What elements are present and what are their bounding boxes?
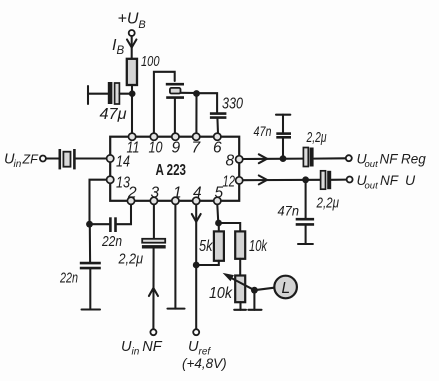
svg-text:2,2μ: 2,2μ — [118, 251, 143, 268]
wire node to 10k branch — [219, 223, 241, 232]
svg-text:U: U — [405, 172, 416, 188]
wire wiper to ground — [253, 290, 255, 310]
svg-text:2,2μ: 2,2μ — [316, 196, 339, 212]
capacitor 2.2u row1 box plate — [303, 148, 308, 167]
wire node down to 47n lower — [305, 180, 307, 218]
node 22n junction — [86, 221, 93, 228]
node 47n row2 junction — [302, 176, 309, 183]
wire cap row1 to terminal — [314, 157, 346, 159]
wire node to 5k — [218, 223, 220, 232]
svg-text:7: 7 — [192, 140, 202, 157]
capacitor 2.2u row2 solid plate — [327, 171, 331, 189]
wire pin 13 left and down — [90, 180, 107, 225]
wire 330 to pin 6 — [216, 118, 219, 134]
svg-text:in: in — [14, 159, 22, 170]
svg-text:47μ: 47μ — [100, 106, 127, 123]
svg-text:1: 1 — [173, 185, 182, 202]
capacitor Uin ZF right plate — [73, 149, 76, 169]
svg-text:A 223: A 223 — [156, 162, 187, 179]
svg-text:out: out — [365, 159, 379, 170]
svg-text:9: 9 — [172, 140, 181, 157]
arrow into pin 4 line — [192, 214, 201, 222]
svg-text:330: 330 — [222, 96, 243, 113]
pin 7 — [193, 133, 200, 140]
capacitor 2.2u row1 solid plate — [310, 148, 314, 167]
potentiometer 10k body — [235, 276, 245, 303]
wire node to cap 330 — [197, 93, 218, 112]
wire 22n vertical to ground — [89, 268, 91, 309]
capacitor pin10 top plate — [166, 83, 184, 86]
pin 10 — [150, 133, 157, 140]
wire pot bottom to ground — [239, 302, 241, 310]
svg-text:UinNF: UinNF — [121, 339, 163, 358]
capacitor 47n lower top plate — [296, 218, 314, 221]
node pin5/5k/10k junction — [215, 220, 222, 227]
wire terminal to input cap — [46, 157, 59, 159]
terminal Uin NF — [150, 329, 156, 335]
capacitor 22n (pin13-pin2) right plate — [114, 217, 117, 232]
capacitor 22n vertical top plate — [80, 262, 101, 265]
terminal Uout NF Reg — [346, 155, 352, 161]
svg-text:5: 5 — [215, 185, 224, 202]
wire pin 5 down — [217, 205, 218, 224]
svg-text:14: 14 — [116, 154, 130, 171]
svg-text:12: 12 — [223, 174, 236, 191]
ground stub pin 1 — [168, 308, 185, 310]
capacitor 47n upper top plate — [276, 132, 291, 135]
wire 47n lower to ground — [305, 224, 307, 244]
pin 14 — [107, 155, 114, 162]
node Uref/5k junction — [193, 262, 200, 269]
pin 1 — [172, 197, 179, 204]
resistor 5k — [214, 231, 224, 260]
pin 8 — [236, 156, 243, 163]
capacitor 47u negative plate — [108, 82, 113, 104]
wire 47u to node — [120, 93, 133, 95]
pin 3 — [150, 197, 157, 204]
capacitor 22n (pin13-pin2) left plate — [109, 217, 112, 232]
wire R100 to pin 11 — [131, 85, 133, 134]
capacitor 2.2u row2 box plate — [321, 171, 326, 189]
svg-text:out: out — [365, 180, 379, 191]
wire pin 12 to output row 2 — [243, 179, 320, 181]
terminal Uref — [193, 329, 199, 335]
wire box electrode to pin7 node — [181, 92, 197, 94]
svg-text:10k: 10k — [249, 238, 268, 255]
node R100/47u junction — [129, 90, 136, 97]
ground stub wiper — [248, 309, 261, 311]
svg-text:6: 6 — [213, 140, 222, 157]
wire 2.2u down to Uin NF terminal — [152, 249, 154, 330]
capacitor pin9 bottom plate — [166, 96, 184, 99]
ground stub above 47n — [276, 114, 290, 116]
pin 2 — [127, 197, 134, 204]
wire 47n up to ground — [282, 115, 284, 134]
wiper arrow of pot — [232, 278, 254, 290]
capacitor Uin ZF left plate — [58, 149, 61, 169]
svg-text:2: 2 — [127, 185, 137, 202]
wire node down to 22n vertical — [89, 224, 91, 262]
capacitor 2.2u (pin3) solid plate — [142, 245, 166, 248]
lamp L — [274, 276, 297, 299]
ground stub pot — [234, 309, 246, 311]
wire pin 8 to output row 1 — [243, 158, 303, 160]
wiper arrowhead — [223, 273, 234, 281]
wire stub to 47u — [88, 93, 108, 95]
pin 6 — [214, 133, 221, 140]
wire pin 3 down — [153, 205, 155, 239]
arrow row 2 — [259, 176, 267, 185]
pin 5 — [214, 197, 221, 204]
ground stub left of 47u — [87, 86, 89, 104]
pin 4 — [193, 197, 200, 204]
svg-text:22n: 22n — [101, 234, 122, 250]
terminal Uin ZF — [40, 156, 46, 162]
wire pin 4 down to Uref — [195, 205, 197, 330]
ground stub below 47n lower — [298, 243, 313, 245]
pin 9 — [172, 133, 179, 140]
wire 10k to pot — [239, 259, 241, 276]
arrow row 1 — [259, 154, 267, 163]
capacitor 330 bottom plate — [210, 116, 227, 119]
terminal Uout NF U — [347, 177, 353, 183]
svg-text:L: L — [282, 280, 291, 297]
svg-text:47n: 47n — [254, 123, 272, 139]
node wiper junction — [251, 287, 258, 294]
node pin7 top junction — [193, 90, 200, 97]
svg-text:(+4,8V): (+4,8V) — [182, 356, 227, 371]
op-amp U1 IC A223 box — [110, 137, 239, 201]
wire +UB to R 100 — [131, 36, 133, 58]
wire 22n cap to pin 2 — [117, 205, 131, 225]
svg-text:22n: 22n — [59, 271, 78, 287]
wire pin 1 down — [174, 205, 176, 309]
resistor 100 — [127, 59, 137, 85]
wire node to 22n cap — [90, 223, 110, 225]
capacitor body box (shared electrode) — [170, 88, 181, 94]
capacitor 47u positive box plate — [115, 83, 120, 104]
svg-text:NF Reg: NF Reg — [380, 152, 427, 167]
wire pin 10 up and over — [154, 72, 175, 134]
svg-text:2,2μ: 2,2μ — [306, 130, 327, 146]
svg-text:47n: 47n — [278, 203, 300, 219]
pin 12 — [236, 177, 243, 184]
pin 11 — [129, 133, 136, 140]
terminal +UB — [129, 30, 135, 36]
ground stub below 22n — [82, 308, 101, 310]
pin 13 — [107, 176, 114, 183]
capacitor Uin ZF body box — [63, 152, 70, 167]
resistor 10k upper — [235, 231, 245, 258]
wire wiper to lamp — [254, 288, 274, 291]
wire input cap to pin 14 — [76, 157, 107, 159]
svg-text:10k: 10k — [209, 285, 233, 302]
wire node down to pin 7 — [195, 94, 197, 134]
svg-text:5k: 5k — [199, 238, 214, 255]
capacitor 330 top plate — [210, 112, 227, 115]
svg-text:100: 100 — [141, 54, 160, 70]
capacitor 47n lower bottom plate — [296, 223, 314, 226]
wire 5k bottom to node wire — [196, 261, 219, 265]
svg-text:4: 4 — [193, 185, 202, 202]
svg-text:ZF: ZF — [22, 153, 40, 167]
svg-text:NF: NF — [380, 173, 399, 188]
wire bottom plate to pin 9 — [174, 98, 176, 134]
capacitor 47n upper bottom plate — [276, 136, 291, 139]
svg-text:10: 10 — [149, 140, 163, 157]
capacitor 2.2u (pin3) box plate — [142, 239, 165, 243]
arrow IB current — [127, 40, 136, 48]
capacitor 22n vertical bottom plate — [80, 267, 101, 270]
svg-text:8: 8 — [226, 153, 235, 170]
svg-text:3: 3 — [151, 185, 160, 202]
node 47n row1 junction — [280, 155, 287, 162]
wire cap row2 to terminal — [332, 179, 347, 181]
wire node up to 47n — [282, 138, 284, 158]
arrow Uin NF — [149, 288, 158, 296]
